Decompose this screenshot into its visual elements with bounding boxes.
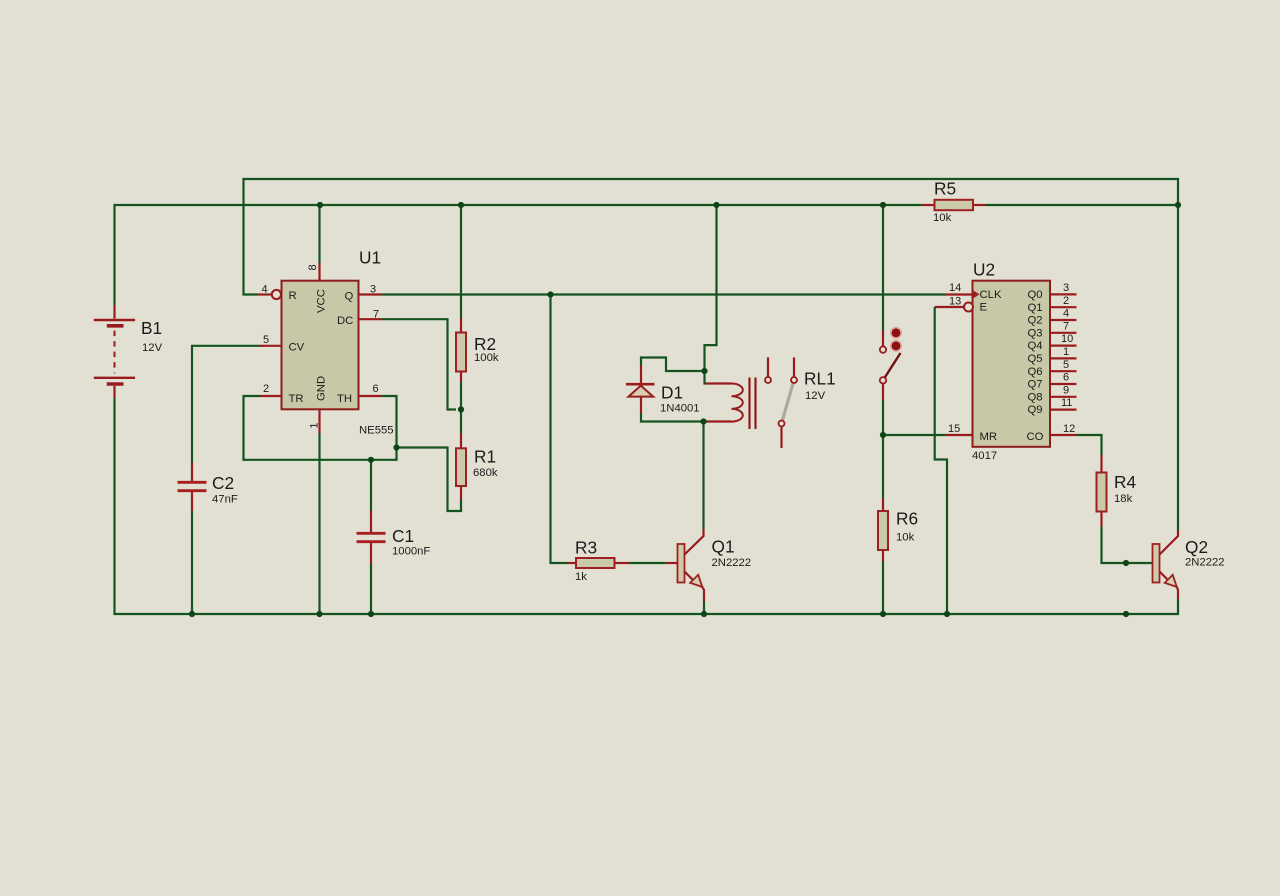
svg-text:Q0: Q0 bbox=[1028, 289, 1043, 301]
svg-text:Q: Q bbox=[345, 291, 354, 303]
svg-text:11: 11 bbox=[1061, 397, 1072, 409]
svg-text:Q4: Q4 bbox=[1028, 340, 1043, 352]
svg-text:DC: DC bbox=[337, 315, 353, 327]
svg-text:R5: R5 bbox=[934, 179, 956, 199]
svg-text:14: 14 bbox=[949, 282, 961, 294]
svg-text:D1: D1 bbox=[661, 383, 683, 403]
svg-text:13: 13 bbox=[949, 296, 961, 308]
svg-text:Q6: Q6 bbox=[1028, 366, 1043, 378]
svg-text:7: 7 bbox=[1063, 320, 1069, 332]
svg-text:U2: U2 bbox=[973, 260, 995, 280]
svg-text:9: 9 bbox=[1063, 384, 1069, 396]
svg-text:2N2222: 2N2222 bbox=[1185, 557, 1225, 569]
svg-text:18k: 18k bbox=[1114, 493, 1133, 505]
svg-text:15: 15 bbox=[948, 423, 960, 435]
svg-text:CO: CO bbox=[1027, 431, 1044, 443]
svg-text:10k: 10k bbox=[933, 212, 952, 224]
svg-text:1000nF: 1000nF bbox=[392, 546, 430, 558]
svg-text:680k: 680k bbox=[473, 467, 498, 479]
svg-text:100k: 100k bbox=[474, 352, 499, 364]
svg-text:1k: 1k bbox=[575, 571, 587, 583]
svg-text:RL1: RL1 bbox=[804, 369, 836, 389]
svg-text:Q1: Q1 bbox=[712, 536, 735, 556]
svg-text:TH: TH bbox=[337, 393, 352, 405]
svg-text:Q2: Q2 bbox=[1028, 315, 1043, 327]
svg-text:12V: 12V bbox=[805, 390, 826, 402]
svg-text:R: R bbox=[289, 290, 297, 302]
svg-text:3: 3 bbox=[1063, 282, 1069, 294]
svg-text:6: 6 bbox=[373, 383, 379, 395]
svg-text:NE555: NE555 bbox=[359, 425, 394, 437]
svg-text:1: 1 bbox=[1063, 346, 1069, 358]
svg-text:R6: R6 bbox=[896, 509, 918, 529]
svg-text:C2: C2 bbox=[212, 473, 234, 493]
svg-text:Q8: Q8 bbox=[1028, 391, 1043, 403]
svg-text:Q7: Q7 bbox=[1028, 379, 1043, 391]
svg-text:TR: TR bbox=[289, 393, 304, 405]
svg-text:2N2222: 2N2222 bbox=[712, 557, 752, 569]
svg-text:1: 1 bbox=[308, 422, 320, 428]
svg-text:6: 6 bbox=[1063, 372, 1069, 384]
svg-text:2: 2 bbox=[263, 383, 269, 395]
svg-text:Q1: Q1 bbox=[1028, 302, 1043, 314]
svg-text:5: 5 bbox=[1063, 359, 1069, 371]
svg-text:8: 8 bbox=[307, 264, 319, 270]
svg-text:CV: CV bbox=[289, 342, 305, 354]
svg-text:4: 4 bbox=[262, 284, 268, 296]
svg-text:R1: R1 bbox=[474, 447, 496, 467]
svg-text:R4: R4 bbox=[1114, 472, 1136, 492]
svg-text:Q2: Q2 bbox=[1185, 537, 1208, 557]
svg-text:7: 7 bbox=[373, 309, 379, 321]
svg-text:47nF: 47nF bbox=[212, 494, 238, 506]
svg-text:10: 10 bbox=[1061, 333, 1073, 345]
svg-text:CLK: CLK bbox=[980, 289, 1002, 301]
svg-text:MR: MR bbox=[980, 431, 998, 443]
svg-text:GND: GND bbox=[316, 376, 328, 401]
svg-text:3: 3 bbox=[370, 284, 376, 296]
svg-text:12V: 12V bbox=[142, 342, 163, 354]
svg-text:E: E bbox=[980, 302, 988, 314]
svg-text:VCC: VCC bbox=[316, 289, 328, 313]
svg-text:4: 4 bbox=[1063, 308, 1069, 320]
svg-text:R2: R2 bbox=[474, 334, 496, 354]
svg-text:B1: B1 bbox=[141, 318, 162, 338]
svg-text:Q3: Q3 bbox=[1028, 327, 1043, 339]
svg-text:C1: C1 bbox=[392, 526, 414, 546]
svg-text:Q5: Q5 bbox=[1028, 353, 1043, 365]
svg-text:R3: R3 bbox=[575, 538, 597, 558]
svg-text:12: 12 bbox=[1063, 423, 1075, 435]
svg-text:4017: 4017 bbox=[972, 450, 997, 462]
svg-text:5: 5 bbox=[263, 334, 269, 346]
svg-text:Q9: Q9 bbox=[1028, 404, 1043, 416]
svg-text:U1: U1 bbox=[359, 248, 381, 268]
svg-text:1N4001: 1N4001 bbox=[660, 403, 700, 415]
svg-text:10k: 10k bbox=[896, 532, 915, 544]
svg-text:2: 2 bbox=[1063, 295, 1069, 307]
